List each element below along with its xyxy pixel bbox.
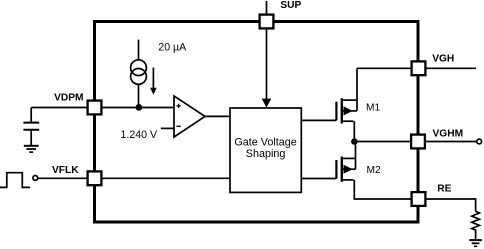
- svg-text:VGH: VGH: [432, 53, 454, 64]
- svg-text:1.240 V: 1.240 V: [121, 129, 158, 141]
- svg-text:VDPM: VDPM: [54, 93, 83, 104]
- svg-text:M2: M2: [367, 165, 381, 176]
- svg-text:Shaping: Shaping: [246, 148, 286, 160]
- svg-text:M1: M1: [366, 103, 380, 114]
- svg-text:RE: RE: [437, 183, 451, 194]
- svg-text:Gate Voltage: Gate Voltage: [234, 137, 296, 149]
- svg-text:SUP: SUP: [280, 0, 301, 11]
- svg-text:VGHM: VGHM: [433, 129, 464, 140]
- svg-text:VFLK: VFLK: [52, 165, 79, 176]
- svg-text:20 µA: 20 µA: [158, 42, 187, 54]
